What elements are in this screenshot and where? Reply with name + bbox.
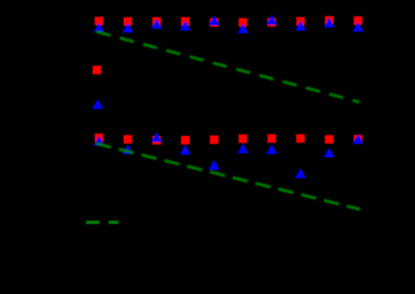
bottom panel red square marker 7 xyxy=(267,134,276,143)
top panel red square marker 5 xyxy=(210,18,219,27)
top panel red square marker 8 xyxy=(296,17,305,26)
top panel green dashed fit line xyxy=(97,32,360,102)
top panel red square marker 3 xyxy=(152,17,161,26)
top panel blue triangle marker 6 xyxy=(237,23,248,33)
top panel blue triangle marker 1 xyxy=(94,22,105,32)
bottom panel red square marker 9 xyxy=(325,135,334,144)
top panel blue triangle marker 8 xyxy=(295,21,306,31)
bottom panel green dashed fit line xyxy=(94,143,361,210)
top panel red square marker 6 xyxy=(239,18,248,27)
top panel blue triangle marker 9 xyxy=(324,18,335,28)
top panel red square marker 9 xyxy=(325,16,334,25)
top legend blue triangle entry xyxy=(92,99,103,109)
bottom panel blue triangle marker 6 xyxy=(237,143,248,153)
top panel blue triangle marker 10 xyxy=(353,22,364,32)
top panel red square marker 2 xyxy=(124,17,133,26)
bottom panel red square marker 8 xyxy=(296,134,305,143)
bottom panel red square marker 1 xyxy=(95,134,104,143)
bottom panel blue triangle marker 3 xyxy=(151,132,162,142)
top panel blue triangle marker 4 xyxy=(180,21,191,31)
top panel red square marker 10 xyxy=(354,16,363,25)
bottom panel red square marker 3 xyxy=(152,136,161,145)
bottom panel blue triangle marker 10 xyxy=(353,134,364,144)
top panel blue triangle marker 3 xyxy=(151,19,162,29)
bottom panel blue triangle marker 1 xyxy=(94,136,105,146)
bottom panel blue triangle marker 4 xyxy=(180,145,191,155)
bottom panel blue triangle marker 5 xyxy=(209,160,220,170)
bottom legend green dashed line entry xyxy=(86,221,119,224)
bottom panel red square marker 10 xyxy=(354,135,363,144)
bottom panel red square marker 4 xyxy=(181,136,190,145)
bottom panel red square marker 6 xyxy=(239,134,248,143)
top panel red square marker 7 xyxy=(267,18,276,27)
bottom panel blue triangle marker 9 xyxy=(324,148,335,158)
top panel blue triangle marker 2 xyxy=(122,23,133,33)
bottom panel blue triangle marker 7 xyxy=(266,144,277,154)
bottom panel red square marker 5 xyxy=(210,135,219,144)
top panel red square marker 4 xyxy=(181,17,190,26)
top legend red square entry xyxy=(93,66,102,75)
top panel blue triangle marker 5 xyxy=(209,15,220,25)
top panel blue triangle marker 7 xyxy=(266,15,277,25)
bottom panel blue triangle marker 2 xyxy=(122,145,133,155)
bottom panel red square marker 2 xyxy=(124,135,133,144)
bottom panel blue triangle marker 8 xyxy=(295,168,306,178)
top panel red square marker 1 xyxy=(95,17,104,26)
